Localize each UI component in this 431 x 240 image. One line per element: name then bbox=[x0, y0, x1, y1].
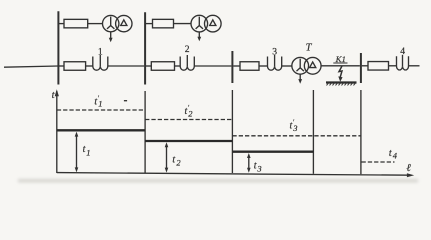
scan shadow smudge at bottom bbox=[18, 179, 418, 182]
fault K1 lightning arrow bbox=[338, 66, 342, 82]
svg-text:t: t bbox=[254, 161, 257, 172]
breaker rectangle (main line, section 4) bbox=[368, 62, 389, 71]
system source arrow below transformer 1 bbox=[109, 32, 113, 43]
svg-text:3: 3 bbox=[292, 123, 297, 133]
current transformer 1 (loops) bbox=[93, 55, 108, 70]
axis label l (distance) bbox=[406, 163, 411, 174]
label 4 (CT 4) bbox=[400, 46, 405, 57]
current transformer 3 (loops) bbox=[268, 55, 282, 70]
axis label t bbox=[52, 90, 56, 101]
solid step t2 bbox=[145, 140, 232, 142]
label 1 (CT 1) bbox=[98, 46, 103, 57]
current transformer 2 (loops) bbox=[180, 55, 194, 70]
svg-text:3: 3 bbox=[272, 47, 277, 58]
ground hatch bar at fault bbox=[326, 82, 357, 85]
transformer T winding I (star) bbox=[292, 57, 309, 74]
graph section boundary at busbar 4 bbox=[360, 90, 362, 174]
wire main line left segment bbox=[4, 66, 58, 67]
svg-text:2: 2 bbox=[185, 44, 190, 55]
wire CT3 to transformer T bbox=[282, 65, 292, 67]
wire breaker to transformer 1 bbox=[88, 23, 103, 25]
dashed level t4 bbox=[362, 161, 395, 163]
wire busbar2 to breaker (top branch 2) bbox=[146, 23, 153, 25]
wire breaker to CT 3 bbox=[259, 65, 268, 67]
breaker rectangle (top branch 2) bbox=[153, 19, 174, 28]
label t1 bbox=[83, 144, 91, 157]
solid step t3 bbox=[232, 151, 313, 153]
wire busbar1 to breaker 1 (top branch) bbox=[59, 23, 64, 25]
svg-text:3: 3 bbox=[256, 163, 261, 173]
label 3 (CT 3) bbox=[272, 47, 277, 58]
label t'3 bbox=[290, 119, 298, 133]
wire transformer T to busbar 4 bbox=[321, 65, 360, 67]
transformer 2 winding I (star) bbox=[191, 15, 208, 32]
solid step t1 bbox=[57, 129, 145, 131]
transformer T winding II (delta) bbox=[304, 57, 321, 74]
breaker rectangle (main line, section 1) bbox=[64, 62, 86, 71]
wire breaker to CT 1 bbox=[86, 65, 93, 67]
svg-text:t: t bbox=[389, 148, 392, 159]
svg-text:4: 4 bbox=[393, 150, 398, 160]
svg-text:1: 1 bbox=[98, 99, 102, 109]
label K1 (fault point) bbox=[333, 54, 347, 64]
system source arrow below transformer 2 bbox=[197, 32, 201, 41]
graph section boundary at busbar 3 bbox=[231, 90, 233, 173]
busbar 3 bbox=[231, 51, 233, 83]
transformer 1 winding II (delta) bbox=[116, 15, 132, 31]
svg-text:2: 2 bbox=[188, 108, 193, 118]
wire busbar2 to breaker (main line section 2) bbox=[146, 65, 151, 67]
breaker rectangle (main line, section 2) bbox=[151, 62, 174, 71]
svg-text:2: 2 bbox=[176, 157, 181, 167]
wire right end of main line bbox=[409, 65, 420, 67]
measuring arrow t3 bbox=[247, 153, 251, 173]
wire breaker to CT 4 bbox=[389, 65, 397, 67]
breaker rectangle (top branch 1) bbox=[64, 19, 88, 28]
label t3 bbox=[254, 161, 262, 174]
svg-text:t: t bbox=[172, 154, 175, 165]
dashed level t'1 bbox=[57, 109, 145, 111]
wire busbar1 to breaker 1 (main line) bbox=[59, 65, 64, 67]
time axis t (vertical) bbox=[55, 89, 59, 173]
svg-text:4: 4 bbox=[400, 46, 405, 57]
breaker rectangle (main line, section 3) bbox=[240, 62, 259, 71]
measuring arrow t1 bbox=[75, 132, 79, 173]
label T (transformer) bbox=[306, 43, 313, 54]
busbar 1 bbox=[57, 11, 59, 84]
measuring arrow t2 bbox=[165, 142, 169, 172]
wire CT2 to busbar 3 bbox=[194, 65, 231, 67]
dashed level t'2 bbox=[145, 119, 232, 121]
busbar 4 bbox=[360, 53, 362, 83]
label t'1 bbox=[94, 94, 102, 108]
distance axis (horizontal, bottom) bbox=[57, 173, 414, 178]
graph section boundary at transformer T bbox=[312, 90, 314, 174]
label 2 (CT 2) bbox=[185, 44, 190, 55]
current transformer 4 (loops) bbox=[397, 55, 409, 70]
wire busbar3 to breaker 3 bbox=[233, 65, 240, 67]
transformer 1 winding I (star) bbox=[103, 15, 119, 31]
label t4 bbox=[389, 148, 398, 161]
wire breaker to transformer 2 bbox=[174, 23, 192, 25]
grounded neutral arrow below transformer T bbox=[298, 74, 302, 84]
graph section boundary at busbar 2 bbox=[144, 91, 146, 173]
svg-text:1: 1 bbox=[98, 46, 103, 57]
wire CT1 to busbar 2 bbox=[108, 65, 144, 67]
label t2 bbox=[172, 154, 181, 167]
transformer 2 winding II (delta) bbox=[205, 15, 222, 32]
wire breaker to CT 2 bbox=[175, 65, 181, 67]
svg-text:t: t bbox=[83, 144, 86, 155]
svg-text:ℓ: ℓ bbox=[406, 163, 411, 174]
busbar 2 bbox=[144, 12, 146, 84]
stray dash mark right of t'1 bbox=[124, 100, 127, 102]
label t'2 bbox=[185, 104, 194, 119]
svg-text:1: 1 bbox=[86, 147, 90, 157]
wire busbar4 to breaker 4 bbox=[362, 65, 368, 67]
dashed level t'3 bbox=[232, 135, 361, 137]
